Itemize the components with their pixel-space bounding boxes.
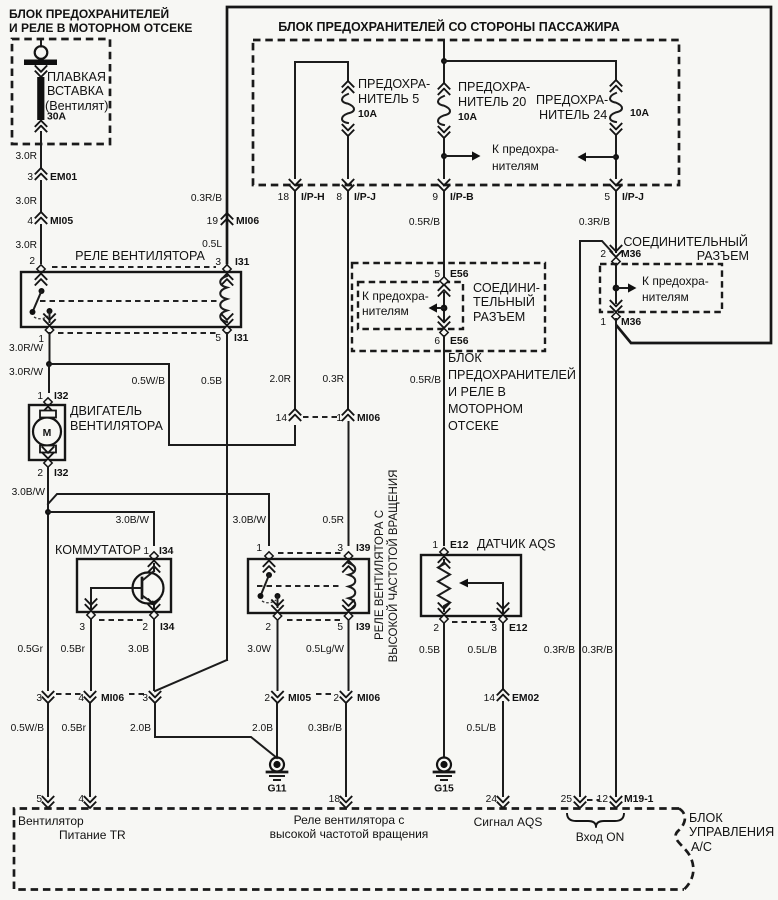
svg-text:I32: I32 (54, 468, 69, 479)
connector MI06 pin 14 (276, 409, 302, 424)
svg-text:НИТЕЛЬ 24: НИТЕЛЬ 24 (539, 108, 607, 122)
svg-text:ВЫСОКОЙ ЧАСТОТОЙ ВРАЩЕНИЯ: ВЫСОКОЙ ЧАСТОТОЙ ВРАЩЕНИЯ (387, 470, 400, 663)
svg-text:К предохра-: К предохра- (492, 142, 559, 156)
svg-text:М36: М36 (621, 317, 641, 328)
wire 0.5Br: I34 pin3 down (61, 619, 91, 690)
connector M36 pin 2 (600, 245, 641, 266)
relay I39 internal dashed link (257, 585, 341, 587)
svg-text:1: 1 (600, 317, 606, 328)
svg-text:10А: 10А (630, 108, 650, 119)
svg-text:G15: G15 (434, 784, 454, 795)
svg-text:ПРЕДОХРА-: ПРЕДОХРА- (536, 93, 608, 107)
svg-text:Питание TR: Питание TR (59, 828, 126, 842)
ground G15 (434, 758, 454, 795)
svg-text:0.5L: 0.5L (202, 239, 222, 250)
svg-text:РАЗЪЕМ: РАЗЪЕМ (697, 249, 749, 263)
connector MI06 pin 2 (333, 691, 380, 704)
title: БЛОК ПРЕДОХРАНИТЕЛЕЙ СО СТОРОНЫ ПАССАЖИРА (278, 19, 620, 34)
svg-text:нителям: нителям (642, 290, 689, 304)
svg-text:3.0R/W: 3.0R/W (9, 343, 43, 354)
wire label 0.3R/B left segment (191, 193, 222, 204)
svg-text:I/P-J: I/P-J (354, 192, 376, 203)
svg-text:0.5R/B: 0.5R/B (409, 217, 440, 228)
svg-text:0.3R/B: 0.3R/B (582, 645, 613, 656)
wire 0.3R/B: I/P-J 5 to M36 2 (579, 192, 616, 252)
outer dashed box E56 junction (352, 263, 545, 351)
connector EM02 pin 14 (484, 689, 540, 704)
svg-text:НИТЕЛЬ 20: НИТЕЛЬ 20 (458, 95, 526, 109)
wire 3.0B: I34 pin2 down (128, 619, 154, 690)
svg-text:3: 3 (36, 693, 42, 704)
wire 0.5R/B: I/P-B 9 to E56 5 (409, 192, 444, 277)
svg-text:ТЕЛЬНЫЙ: ТЕЛЬНЫЙ (473, 294, 535, 309)
vertical label: ВЫСОКОЙ ЧАСТОТОЙ ВРАЩЕНИЯ (387, 470, 400, 663)
svg-text:I34: I34 (160, 622, 175, 633)
svg-text:I39: I39 (356, 543, 371, 554)
svg-text:3.0R: 3.0R (15, 151, 37, 162)
brace: Вход ON (567, 813, 624, 827)
connector I/P-J pin 5 (604, 179, 644, 203)
dashed curve divider A/C block (676, 809, 694, 890)
wire 0.3R/B: M36 1 to M19-1 12 (615, 319, 617, 796)
wire 0.5W/B: to fan feed pin 5 (11, 704, 48, 796)
connector I32 pin 2 (37, 447, 68, 480)
svg-text:10А: 10А (458, 112, 478, 123)
svg-text:2: 2 (29, 256, 35, 267)
junction node (46, 361, 52, 367)
title: КОММУТАТОР (55, 543, 141, 557)
wire 3.0B/W: motor down (12, 467, 48, 690)
svg-text:3.0R: 3.0R (15, 196, 37, 207)
connector MI05 pin 2 (264, 691, 311, 704)
svg-text:Вход ON: Вход ON (576, 830, 624, 844)
relay I39 pin 1 (256, 543, 275, 573)
svg-text:0.3R: 0.3R (322, 374, 344, 385)
connector EM01 pin 3 (27, 168, 77, 183)
svg-text:6: 6 (434, 336, 440, 347)
AQS arrow onto resistor (459, 579, 503, 616)
title: ДАТЧИК AQS (477, 537, 556, 551)
svg-text:0.5B: 0.5B (201, 376, 222, 387)
wire 2.0R: I/P-H 18 to MI06 14 (269, 192, 295, 409)
wire 0.3R/B from passenger fuse box to relay coil (big solid route) (227, 7, 771, 343)
wire 3.0R: fusible link to EM01 (15, 144, 41, 168)
wire 0.5L/B: EM02 to M19-1 24 (467, 702, 503, 796)
svg-text:А/С: А/С (691, 840, 712, 854)
relay I39 pin 3 (337, 543, 370, 573)
wire inside E56 (443, 293, 445, 322)
fuse F20 symbol (438, 83, 450, 178)
arrow: к предохранителям (fuse 20) (444, 151, 481, 160)
relay I31 internal dashed link (40, 300, 217, 302)
connector I/P-H pin 18 (278, 179, 325, 203)
svg-text:I34: I34 (159, 546, 174, 557)
connector row dashes I31 bottom (58, 332, 216, 334)
svg-text:Е12: Е12 (509, 623, 528, 634)
svg-text:3: 3 (337, 543, 343, 554)
dashed box: engine fuse block (12, 39, 110, 144)
connector MI05 pin 3 (commutator output) (142, 691, 161, 704)
label: ДВИГАТЕЛЬ ВЕНТИЛЯТОРА (70, 404, 163, 433)
svg-text:ПРЕДОХРА-: ПРЕДОХРА- (358, 77, 430, 91)
wire 0.3Br/B: MI06 2 to M19-1 18 (308, 704, 346, 796)
svg-text:I39: I39 (356, 622, 371, 633)
svg-text:К предохра-: К предохра- (642, 274, 709, 288)
relay I31 pin 5 (215, 314, 248, 345)
wire 3.0B/W branch to commutator pin 1 (48, 512, 154, 545)
svg-text:нителям: нителям (492, 159, 539, 173)
label: К предохранителям (top) (492, 142, 559, 173)
label: Вентилятор (18, 814, 84, 828)
svg-text:СОЕДИНИТЕЛЬНЫЙ: СОЕДИНИТЕЛЬНЫЙ (623, 234, 748, 249)
svg-text:0.5R: 0.5R (322, 515, 344, 526)
dashed box: passenger fuse block (253, 40, 679, 185)
wire 0.5B: E12 2 to ground G15 (419, 623, 444, 757)
svg-text:ДВИГАТЕЛЬ: ДВИГАТЕЛЬ (70, 404, 142, 418)
svg-text:MI06: MI06 (357, 413, 380, 424)
label: Питание TR (59, 828, 126, 842)
svg-text:Вентилятор: Вентилятор (18, 814, 84, 828)
connector MI05 pin 4 (27, 212, 73, 227)
svg-text:3: 3 (491, 623, 497, 634)
wire 0.5Br: to TR feed pin 4 (62, 704, 90, 796)
svg-text:КОММУТАТОР: КОММУТАТОР (55, 543, 141, 557)
wire 0.3R/B branch to M19-1 25 (580, 241, 612, 796)
ground G11 (267, 758, 287, 795)
connector I/P-J pin 8 (336, 179, 376, 203)
svg-text:2: 2 (37, 468, 43, 479)
wire loop I/P-H to fuse 5 (295, 62, 348, 178)
svg-text:2.0В: 2.0В (130, 723, 151, 734)
connector I34 pin 2 (142, 599, 174, 634)
label: Вход ON (576, 830, 624, 844)
wire 2.0B: MI05 2 to ground G11 (252, 704, 277, 757)
connector row dashes I39 top (278, 552, 341, 554)
dashed box: bottom control unit (14, 809, 684, 890)
connector M36 pin 1 (600, 300, 641, 328)
connector E12 pin 3 (491, 603, 527, 635)
svg-text:4: 4 (78, 794, 84, 805)
label: К предохранителям (M36) (642, 274, 709, 304)
relay I31 pin 1 (38, 314, 55, 346)
label: К предохранителям (E56) (362, 289, 429, 318)
svg-text:14: 14 (276, 413, 288, 424)
svg-text:ПРЕДОХРАНИТЕЛЕЙ: ПРЕДОХРАНИТЕЛЕЙ (448, 367, 576, 382)
AQS sensor box (421, 555, 521, 616)
svg-text:25: 25 (561, 794, 573, 805)
svg-text:MI06: MI06 (236, 216, 259, 227)
svg-text:0.5Br: 0.5Br (61, 644, 86, 655)
junction node fuse row (441, 58, 447, 64)
svg-text:УПРАВЛЕНИЯ: УПРАВЛЕНИЯ (689, 825, 774, 839)
AQS sensing resistor R1 (438, 560, 450, 611)
connector M19-1 pin 4 (78, 794, 96, 808)
motor box (29, 405, 65, 460)
relay I39 pin 2 (265, 600, 283, 634)
wire: supply into fusible link (40, 39, 42, 47)
svg-text:БЛОК: БЛОК (448, 351, 482, 365)
label: ПРЕДОХРАНИТЕЛЬ 24 10А (536, 93, 650, 122)
fuse F24 symbol (610, 80, 622, 178)
label: БЛОК ПРЕДОХРАНИТЕЛЕЙ И РЕЛЕ В МОТОРНОМ ОТСЕКЕ (ref) (448, 351, 576, 433)
svg-text:0.5W/B: 0.5W/B (11, 723, 45, 734)
wire 3.0W: I39 pin2 down (247, 620, 277, 690)
connector I/P-B pin 9 (432, 179, 474, 203)
svg-text:10А: 10А (358, 109, 378, 120)
svg-text:4: 4 (78, 693, 84, 704)
svg-text:3.0B/W: 3.0B/W (233, 515, 267, 526)
svg-text:0.5Lg/W: 0.5Lg/W (306, 644, 344, 655)
svg-text:5: 5 (215, 333, 221, 344)
connector row dashes I31 top (52, 266, 216, 268)
svg-text:5: 5 (604, 192, 610, 203)
svg-text:3.0R: 3.0R (15, 240, 37, 251)
svg-text:0.5R/B: 0.5R/B (410, 375, 441, 386)
label: Сигнал AQS (474, 815, 543, 829)
fuse F5 symbol (342, 81, 354, 178)
svg-text:ДАТЧИК AQS: ДАТЧИК AQS (477, 537, 556, 551)
svg-text:0.5Br: 0.5Br (62, 723, 87, 734)
junction node motor wire (45, 509, 51, 515)
svg-text:8: 8 (336, 192, 342, 203)
svg-text:ВЕНТИЛЯТОРА: ВЕНТИЛЯТОРА (70, 419, 163, 433)
svg-text:0.3R/B: 0.3R/B (579, 217, 610, 228)
svg-text:Е56: Е56 (450, 269, 469, 280)
wire labels 0.3R/B pair (544, 645, 613, 656)
title: БЛОК ПРЕДОХРАНИТЕЛЕЙ И РЕЛЕ В МОТОРНОМ ОТСЕКЕ (9, 6, 192, 35)
svg-text:БЛОК ПРЕДОХРАНИТЕЛЕЙ СО СТОРОН: БЛОК ПРЕДОХРАНИТЕЛЕЙ СО СТОРОНЫ ПАССАЖИР… (278, 19, 620, 34)
wire inside M36 (615, 266, 617, 303)
svg-text:19: 19 (207, 216, 219, 227)
connector M19-1 pin 18 (329, 794, 353, 808)
svg-text:0.5Gr: 0.5Gr (18, 644, 44, 655)
wire 3.0R/W: relay pin1 down (9, 333, 49, 364)
svg-text:Сигнал AQS: Сигнал AQS (474, 815, 543, 829)
svg-text:0.5L/B: 0.5L/B (468, 645, 498, 656)
svg-text:3.0W: 3.0W (247, 644, 271, 655)
connector row dashes M19-1 (587, 799, 599, 801)
svg-text:3.0B/W: 3.0B/W (12, 487, 46, 498)
wire label 0.5Gr (18, 644, 44, 655)
connector M19-1 pin 25 (561, 794, 587, 808)
connector I34 pin 1 (143, 546, 173, 573)
relay I31 box (21, 272, 241, 327)
commutator box (77, 559, 171, 612)
svg-text:3: 3 (142, 693, 148, 704)
svg-text:0.3R/B: 0.3R/B (544, 645, 575, 656)
svg-text:Е12: Е12 (450, 540, 469, 551)
svg-text:MI05: MI05 (50, 216, 73, 227)
svg-text:РЕЛЕ ВЕНТИЛЯТОРА С: РЕЛЕ ВЕНТИЛЯТОРА С (374, 510, 386, 640)
wire: supply to fuse 20 (443, 40, 445, 83)
arrow: к предохранителям (fuse 24) (578, 152, 617, 161)
svg-text:М: М (43, 428, 52, 439)
svg-text:I32: I32 (54, 391, 69, 402)
svg-text:MI06: MI06 (357, 693, 380, 704)
svg-text:0.3Br/В: 0.3Br/В (308, 723, 342, 734)
svg-text:0.5B: 0.5B (419, 645, 440, 656)
svg-text:2.0R: 2.0R (269, 374, 291, 385)
connector row dashes MI06 mid (129, 693, 146, 695)
wire: fuse row to fuse 24 (444, 61, 616, 80)
svg-text:18: 18 (278, 192, 290, 203)
junction node below fuse 20 (441, 153, 447, 159)
svg-text:G11: G11 (267, 784, 286, 795)
inner dashed box E56 (358, 282, 463, 329)
svg-text:ПРЕДОХРА-: ПРЕДОХРА- (458, 80, 530, 94)
svg-text:0.5W/B: 0.5W/B (132, 376, 166, 387)
wire 0.5R/B: E56 6 to AQS sensor (410, 336, 444, 545)
svg-text:РЕЛЕ ВЕНТИЛЯТОРА: РЕЛЕ ВЕНТИЛЯТОРА (75, 249, 205, 263)
wire 0.5L/B: E12 3 to EM02 (468, 623, 503, 689)
connector row dashes I39 bottom (287, 619, 340, 621)
connector I32 pin 1 (37, 391, 68, 419)
fusible link F1 30A symbol (24, 46, 57, 144)
svg-text:И РЕЛЕ В: И РЕЛЕ В (448, 385, 506, 399)
connector MI06 pin 1 (336, 409, 380, 424)
wire 3.0B/W branch to high-speed relay pin 1 (48, 494, 269, 545)
svg-text:2: 2 (265, 622, 271, 633)
svg-text:EM01: EM01 (50, 172, 77, 183)
connector E56 pin 5 (434, 269, 468, 297)
connector E12 pin 1 (432, 540, 468, 569)
connector E56 pin 6 (434, 316, 468, 347)
svg-text:СОЕДИНИ-: СОЕДИНИ- (473, 281, 540, 295)
connector M19-1 pin 12 (597, 794, 654, 808)
relay I39 switch (258, 572, 281, 607)
svg-text:3: 3 (79, 622, 85, 633)
connector row dashes MI06 14-1 (303, 416, 339, 418)
svg-text:I/P-B: I/P-B (450, 192, 474, 203)
svg-text:ПЛАВКАЯ: ПЛАВКАЯ (47, 70, 106, 84)
connector MI06 pin 3 (left) (36, 691, 54, 704)
junction node below fuse 24 (613, 154, 619, 160)
wire 0.5R: MI06 1 to I39 pin 3 (322, 422, 348, 545)
svg-text:2: 2 (142, 622, 148, 633)
svg-text:2: 2 (264, 693, 270, 704)
svg-text:3: 3 (215, 257, 221, 268)
svg-text:12: 12 (597, 794, 609, 805)
svg-text:I31: I31 (234, 333, 249, 344)
transistor Q1 (91, 564, 164, 612)
svg-text:MI06: MI06 (101, 693, 124, 704)
svg-text:3: 3 (27, 172, 33, 183)
svg-text:4: 4 (27, 216, 33, 227)
svg-text:I31: I31 (235, 257, 250, 268)
svg-text:18: 18 (329, 794, 341, 805)
connector MI06 pin 4 (78, 691, 124, 704)
relay title: РЕЛЕ ВЕНТИЛЯТОРА (75, 249, 205, 263)
relay I39 coil (349, 563, 356, 610)
wire 3.0R: EM01 to MI05 (15, 181, 41, 212)
relay I39 box (248, 559, 369, 613)
wire 2.0B: MI05 3 to ground G11 (130, 704, 277, 758)
svg-text:БЛОК: БЛОК (689, 811, 723, 825)
svg-text:НИТЕЛЬ 5: НИТЕЛЬ 5 (358, 92, 419, 106)
connector M19-1 pin 24 (486, 794, 510, 808)
svg-text:30А: 30А (47, 112, 67, 123)
svg-text:И РЕЛЕ В МОТОРНОМ ОТСЕКЕ: И РЕЛЕ В МОТОРНОМ ОТСЕКЕ (9, 21, 192, 35)
wire 0.5B from I31 pin5 to MI06 3 (diagonal) (155, 333, 227, 691)
svg-text:БЛОК ПРЕДОХРАНИТЕЛЕЙ: БЛОК ПРЕДОХРАНИТЕЛЕЙ (9, 6, 169, 21)
relay I31 pin 3 (215, 257, 249, 286)
label: ПРЕДОХРАНИТЕЛЬ 5 10А (358, 77, 430, 120)
wire 0.5Lg/W: I39 pin5 down (306, 620, 348, 690)
svg-text:ОТСЕКЕ: ОТСЕКЕ (448, 419, 499, 433)
arrow: к предохранителям (E56) (429, 303, 445, 312)
connector row dashes MI06 left (56, 693, 82, 695)
fan motor M (33, 411, 61, 453)
connector MI06 pin 19 (207, 213, 260, 227)
connector row dashes MI05 (316, 693, 331, 695)
svg-text:5: 5 (36, 794, 42, 805)
svg-text:М36: М36 (621, 249, 641, 260)
svg-text:I/P-J: I/P-J (622, 192, 644, 203)
svg-text:24: 24 (486, 794, 498, 805)
label: БЛОК УПРАВЛЕНИЯ А/С (689, 811, 774, 854)
wire 3.0R/W: junction to motor (9, 364, 49, 392)
svg-text:Реле вентилятора с: Реле вентилятора с (294, 813, 405, 827)
wire 3.0R: MI05 to relay pin 2 (15, 225, 41, 263)
svg-text:2: 2 (433, 623, 439, 634)
wire 0.3R: I/P-J 8 to MI06 1 (322, 192, 348, 409)
relay I31 switch (30, 288, 53, 322)
svg-text:МОТОРНОМ: МОТОРНОМ (448, 402, 523, 416)
svg-text:нителям: нителям (362, 304, 409, 318)
label: СОЕДИНИТЕЛЬНЫЙ РАЗЪЕМ (E56) (473, 281, 540, 324)
svg-text:1: 1 (336, 413, 342, 424)
svg-text:Е56: Е56 (450, 336, 469, 347)
wire label 0.5L (202, 239, 222, 250)
svg-text:MI05: MI05 (288, 693, 311, 704)
svg-text:9: 9 (432, 192, 438, 203)
svg-text:3.0B/W: 3.0B/W (116, 515, 150, 526)
svg-text:1: 1 (432, 540, 438, 551)
svg-text:К предохра-: К предохра- (362, 289, 429, 303)
arrow: к предохранителям (M36) (616, 283, 637, 292)
label: СОЕДИНИТЕЛЬНЫЙ РАЗЪЕМ (M36) (623, 234, 749, 263)
svg-text:высокой частотой вращения: высокой частотой вращения (270, 827, 429, 841)
svg-text:1: 1 (256, 543, 262, 554)
svg-text:2: 2 (333, 693, 339, 704)
label: Реле вентилятора с высокой частотой вращения (270, 813, 429, 841)
relay I31 coil (220, 276, 227, 322)
svg-text:1: 1 (37, 391, 43, 402)
junction node M36 (613, 285, 620, 292)
svg-text:5: 5 (434, 269, 440, 280)
svg-text:ВСТАВКА: ВСТАВКА (47, 84, 104, 98)
svg-text:2: 2 (600, 249, 606, 260)
label: ПРЕДОХРАНИТЕЛЬ 20 10А (458, 80, 530, 123)
wire 0.5W/B branch: junction right-down-right to MI06 pin14 (49, 364, 295, 445)
connector M19-1 pin 5 (36, 794, 54, 808)
dashed box M36 junction (600, 264, 722, 312)
connector I34 pin 3 (79, 599, 97, 634)
vertical label: РЕЛЕ ВЕНТИЛЯТОРА С (374, 510, 386, 640)
connector E12 pin 2 (433, 603, 450, 635)
connector row dashes E12 (452, 621, 495, 623)
junction node E56 (441, 305, 448, 312)
label: ПЛАВКАЯ ВСТАВКА (Вентилят) 30А (45, 70, 109, 123)
relay I31 pin 2 (29, 256, 47, 286)
relay I39 pin 5 (337, 600, 370, 634)
svg-text:0.3R/B: 0.3R/B (191, 193, 222, 204)
svg-text:5: 5 (337, 622, 343, 633)
svg-text:1: 1 (143, 546, 149, 557)
svg-text:2.0В: 2.0В (252, 723, 273, 734)
svg-text:РАЗЪЕМ: РАЗЪЕМ (473, 310, 525, 324)
svg-text:3.0В: 3.0В (128, 644, 149, 655)
